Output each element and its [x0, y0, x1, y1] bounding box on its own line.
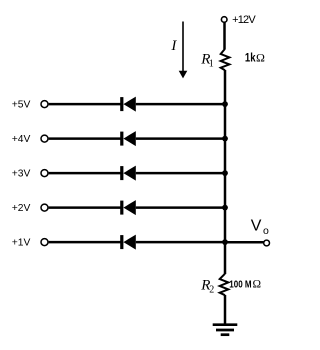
svg-text:1: 1 [209, 59, 214, 70]
wire: R2 bottom to ground [224, 295, 227, 325]
label R2 [200, 277, 214, 295]
wire: +3V terminal to diode D3 [49, 172, 121, 175]
value 1kΩ [245, 50, 265, 64]
wire: +2V terminal to diode D4 [49, 206, 121, 209]
terminal +2V [41, 204, 48, 211]
value 100 MΩ [229, 279, 261, 291]
resistor R2 [220, 274, 229, 296]
wire: diode D3 to bus [136, 172, 225, 175]
node: +4V junction [222, 136, 228, 142]
svg-text:+12V: +12V [232, 14, 256, 26]
diode D1 [120, 97, 136, 112]
svg-text:Ω: Ω [253, 279, 262, 291]
node: +2V junction [222, 205, 228, 211]
svg-text:I: I [170, 38, 177, 54]
svg-text:2: 2 [209, 284, 214, 295]
wire: +12V terminal to R1 top [223, 23, 226, 50]
diode D5 [120, 235, 136, 250]
terminal +4V [41, 135, 48, 142]
diode D2 [120, 131, 136, 146]
svg-text:+4V: +4V [12, 134, 31, 145]
terminal +3V [41, 170, 48, 177]
wire: bus from R1 bottom to R2 top [224, 70, 227, 274]
current arrow I [179, 22, 188, 79]
terminal +5V [41, 101, 48, 108]
terminal Vo [264, 240, 270, 246]
svg-text:o: o [263, 225, 269, 237]
terminal +1V [41, 239, 48, 246]
node: +5V junction [222, 101, 228, 107]
wire: diode D2 to bus [136, 137, 225, 140]
svg-text:+2V: +2V [12, 203, 31, 214]
wire: junction to Vo terminal [225, 241, 264, 244]
svg-text:Ω: Ω [256, 50, 265, 64]
diode D4 [120, 200, 136, 215]
resistor R1 [221, 49, 230, 70]
diode D3 [120, 166, 136, 181]
svg-text:100 M: 100 M [229, 280, 251, 291]
svg-text:1k: 1k [245, 51, 256, 65]
wire: diode D1 to bus [136, 103, 225, 106]
svg-text:+5V: +5V [12, 100, 31, 111]
wire: diode D4 to bus [136, 206, 225, 209]
svg-text:V: V [251, 217, 262, 234]
wire: +5V terminal to diode D1 [49, 103, 121, 106]
node: +1V / output junction [222, 239, 228, 245]
node: +3V junction [222, 170, 228, 176]
terminal +12V [221, 17, 227, 23]
svg-text:+1V: +1V [12, 238, 31, 249]
label Vo [251, 217, 269, 236]
wire: diode D5 to bus [136, 241, 225, 244]
ground [213, 325, 238, 335]
wire: +1V terminal to diode D5 [49, 241, 121, 244]
wire: +4V terminal to diode D2 [49, 137, 121, 140]
label R1 [200, 52, 213, 70]
svg-text:+3V: +3V [12, 169, 31, 180]
